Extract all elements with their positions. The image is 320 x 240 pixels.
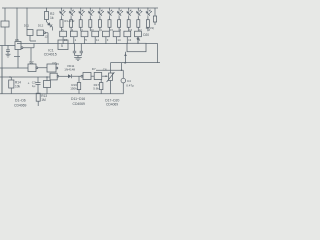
svg-text:D2: D2 [30, 61, 34, 65]
svg-text:D11~D16: D11~D16 [71, 97, 85, 101]
svg-text:+: + [28, 81, 30, 85]
svg-text:1N4148: 1N4148 [64, 68, 75, 72]
svg-text:13: 13 [128, 38, 132, 42]
svg-text:1M: 1M [41, 98, 46, 102]
svg-text:D11: D11 [24, 23, 30, 27]
svg-text:CD4069: CD4069 [73, 102, 86, 106]
svg-text:1μ: 1μ [32, 84, 36, 88]
svg-text:D7: D7 [92, 67, 96, 71]
svg-text:5: 5 [61, 44, 63, 48]
svg-text:D5: D5 [15, 38, 19, 42]
svg-text:12: 12 [45, 34, 49, 38]
svg-text:1k: 1k [50, 16, 54, 20]
svg-text:CD4069: CD4069 [106, 103, 118, 107]
svg-text:11: 11 [96, 38, 99, 42]
svg-text:CD4015: CD4015 [44, 53, 57, 57]
svg-text:D1~D6: D1~D6 [15, 99, 26, 103]
svg-text:14: 14 [117, 38, 121, 42]
svg-text:5.6k: 5.6k [93, 86, 99, 90]
svg-text:D12: D12 [38, 23, 44, 27]
svg-text:0.47μ: 0.47μ [126, 83, 134, 87]
svg-text:R3~R12: R3~R12 [64, 19, 74, 23]
svg-text:CD4069: CD4069 [14, 104, 27, 108]
svg-text:C6: C6 [103, 68, 107, 72]
svg-text:10k: 10k [15, 85, 21, 89]
svg-text:1k(×9): 1k(×9) [146, 26, 155, 30]
svg-text:D20: D20 [143, 33, 149, 37]
svg-text:IC1: IC1 [48, 48, 54, 52]
svg-text:150k: 150k [70, 86, 77, 90]
